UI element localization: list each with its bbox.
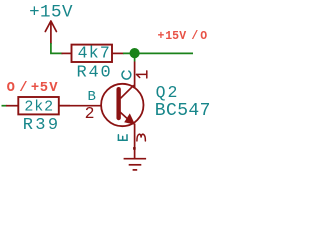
base pin 2 (59, 105, 102, 107)
svg-text:O/+5V: O/+5V (7, 80, 59, 96)
svg-text:2: 2 (85, 104, 95, 123)
ground (124, 159, 147, 170)
resistor R40 (62, 44, 124, 83)
power symbol +15V (29, 3, 73, 44)
svg-text:BC547: BC547 (155, 101, 211, 121)
wire junction to collector pin (134, 53, 136, 61)
resistor R39 (6, 97, 70, 135)
wire left edge stub (2, 105, 7, 107)
wire power to R40 (51, 43, 63, 53)
collector pin 1 (134, 62, 136, 89)
emitter pin 3 (134, 124, 136, 159)
svg-text:+15V/O: +15V/O (158, 30, 208, 43)
pin number 3 (137, 134, 146, 141)
svg-text:R39: R39 (23, 116, 61, 135)
pin name E (118, 135, 127, 141)
svg-text:+15V: +15V (29, 3, 73, 23)
emitter pin end junction (133, 147, 136, 150)
transistor Q2 BC547 (101, 83, 211, 126)
svg-text:Q2: Q2 (156, 83, 180, 102)
wire R40 to right edge (123, 52, 193, 54)
svg-text:2k2: 2k2 (24, 98, 54, 115)
svg-text:R40: R40 (76, 63, 112, 82)
svg-text:B: B (88, 89, 96, 105)
svg-text:4k7: 4k7 (78, 44, 111, 63)
pin name C (122, 71, 131, 79)
pin number 1 (137, 71, 147, 78)
junction node (130, 48, 140, 58)
